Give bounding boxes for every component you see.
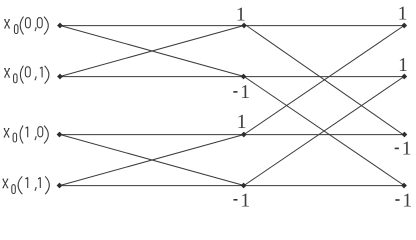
svg-text:1: 1 (402, 139, 412, 160)
wire stage2 cross M4-R2 (244, 77, 404, 186)
node L1 (57, 23, 63, 29)
node R4 (401, 183, 407, 189)
wire stage2 cross M3-R1 (244, 26, 404, 135)
label -1 below node M4 (234, 191, 251, 212)
svg-text:1: 1 (402, 190, 412, 209)
node M2 (241, 74, 247, 80)
wire stage1 cross L1-M2 (60, 26, 244, 77)
node M4 (241, 183, 247, 189)
label x0(0,0) row 1 (4, 17, 48, 35)
wire stage1 cross L4-M3 (60, 135, 244, 186)
wire stage1 cross L2-M1 (60, 26, 244, 77)
node M3 (241, 132, 247, 138)
wire stage1 cross L3-M4 (60, 135, 244, 186)
wire row 3 horizontal (60, 134, 404, 136)
wire stage2 cross M1-R3 (244, 24, 404, 136)
svg-text:1: 1 (237, 111, 247, 133)
svg-text:1: 1 (398, 4, 408, 25)
node M1 (241, 23, 247, 29)
label -1 below node M2 (233, 82, 250, 103)
node L4 (57, 183, 63, 189)
label x0(0,1) row 2 (4, 66, 49, 84)
label x0(1,0) row 3 (4, 126, 49, 144)
wire row 2 horizontal (60, 76, 404, 78)
node L3 (57, 132, 63, 138)
svg-text:1: 1 (240, 82, 250, 103)
wire stage2 cross M2-R4 (244, 77, 404, 186)
node L2 (57, 74, 63, 80)
svg-text:1: 1 (236, 4, 246, 25)
node R2 (401, 74, 407, 80)
svg-text:1: 1 (398, 55, 408, 76)
wire row 1 horizontal (60, 25, 404, 27)
label -1 below node R4 (395, 190, 412, 211)
label -1 below node R3 (395, 139, 412, 160)
node R1 (401, 23, 407, 29)
node R3 (402, 132, 408, 138)
wire row 4 horizontal (60, 185, 404, 187)
svg-text:1: 1 (240, 191, 250, 210)
label x0(1,1) row 4 (3, 176, 50, 194)
